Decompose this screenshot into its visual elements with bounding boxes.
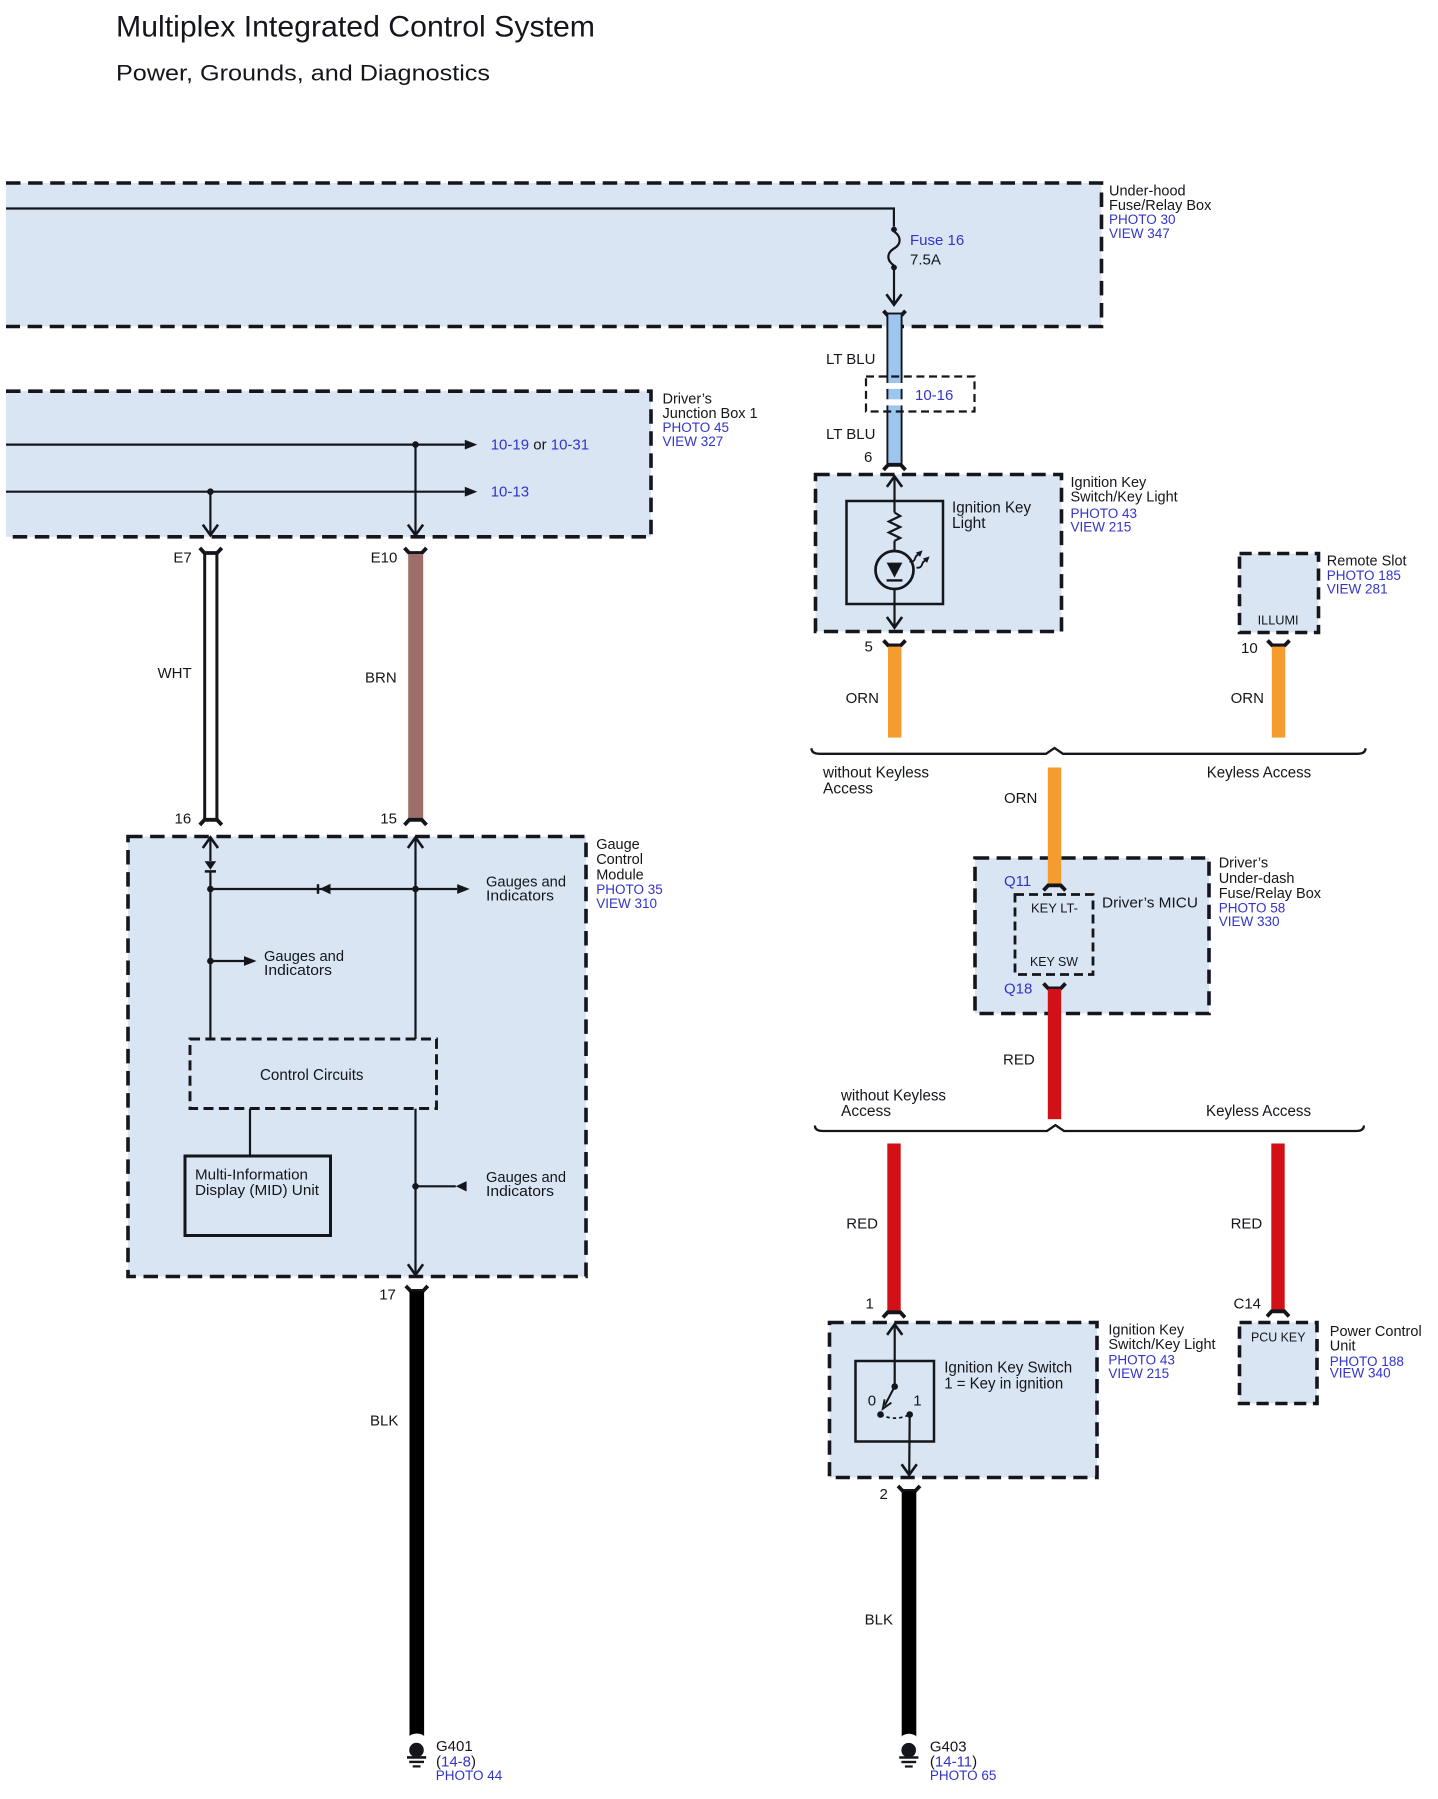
label: ILLUMI: [1258, 614, 1299, 628]
wire: BLK to G401: [409, 1291, 425, 1742]
label: ORN (middle): [1004, 790, 1037, 807]
label: KEY SW: [1030, 955, 1078, 969]
lamp L1 (LED key light): [876, 551, 914, 589]
label: Ignition Key Light: [952, 500, 1031, 533]
pin 2: [880, 1486, 888, 1503]
svg-text:LT BLU: LT BLU: [826, 351, 875, 368]
label: Driver's Junction Box 1 PHOTO 45 VIEW 327: [663, 391, 758, 449]
label: Power Control Unit PHOTO 188 VIEW 340: [1330, 1324, 1422, 1380]
light rays: [910, 550, 930, 567]
connector bracket (pin 10): [1268, 640, 1290, 645]
wire: left line node A to node B to control circuits: [209, 889, 211, 1039]
svg-text:VIEW 215: VIEW 215: [1071, 519, 1132, 534]
svg-text:PHOTO 65: PHOTO 65: [930, 1768, 997, 1783]
driver's under-dash fuse/relay box: [975, 858, 1209, 1014]
wire: junction bus to 10-13: [6, 487, 477, 497]
wire: BLK to G403: [901, 1491, 917, 1742]
label: Keyless Access (upper): [1207, 765, 1312, 782]
node A: [207, 886, 214, 893]
pin E10: [371, 550, 398, 567]
label: LT BLU (lower): [826, 426, 875, 443]
wire: pin1 into switch: [887, 1324, 902, 1386]
svg-text:E10: E10: [371, 550, 398, 567]
label: Under-hood Fuse/Relay Box PHOTO 30 VIEW 347: [1109, 183, 1212, 241]
label: without Keyless Access (lower): [840, 1088, 946, 1121]
label: Ignition Key Switch/Key Light PHOTO 43 VIEW 215 (lower): [1108, 1323, 1215, 1381]
svg-text:1: 1: [913, 1392, 921, 1409]
wire: control circuits to MID unit: [249, 1109, 251, 1156]
label: 10-16: [915, 387, 953, 404]
svg-text:Unit: Unit: [1330, 1339, 1356, 1355]
connector bracket (Q18): [1044, 983, 1066, 988]
svg-text:PCU KEY: PCU KEY: [1251, 1331, 1306, 1345]
svg-text:PHOTO 44: PHOTO 44: [436, 1768, 503, 1783]
wire: input from gauges and indicators (bottom): [416, 1181, 467, 1191]
svg-text:Control: Control: [596, 852, 643, 868]
svg-text:Display (MID) Unit: Display (MID) Unit: [195, 1182, 320, 1199]
label: BLK (right): [865, 1612, 893, 1629]
svg-text:C14: C14: [1234, 1296, 1262, 1313]
driver's junction box 1: [6, 391, 651, 537]
svg-text:Q11: Q11: [1004, 873, 1031, 890]
svg-text:5: 5: [865, 638, 873, 655]
wire: diode to node A: [209, 871, 211, 889]
wire: right line below control circuits: [408, 1109, 423, 1275]
label: Remote Slot PHOTO 185 VIEW 281: [1327, 554, 1407, 597]
pin C14: [1234, 1296, 1262, 1313]
wire: resistor to lamp: [893, 541, 895, 552]
svg-text:1: 1: [866, 1296, 874, 1313]
svg-text:Keyless Access: Keyless Access: [1206, 1103, 1311, 1120]
wire: WHT vertical: [205, 555, 217, 819]
svg-text:17: 17: [379, 1287, 396, 1304]
wire: horizontal to gauges and indicators (top): [210, 884, 469, 894]
label: WHT: [158, 665, 192, 682]
wire: pin16 line into module: [203, 837, 218, 861]
ignition key switch/key light box (key light): [816, 475, 1062, 632]
label: Gauges and Indicators (middle): [264, 948, 344, 979]
in-line connector 10-16: [866, 377, 975, 412]
svg-text:KEY SW: KEY SW: [1030, 955, 1078, 969]
label: Control Circuits: [260, 1067, 364, 1084]
svg-text:ORN: ORN: [1004, 790, 1037, 807]
label: Ignition Key Switch/Key Light PHOTO 43 VIEW 215 (upper): [1071, 475, 1178, 535]
branch brace (keyless split upper): [812, 748, 1366, 754]
label: ORN (left): [846, 690, 879, 707]
wire: pin15 line into module: [408, 837, 423, 1039]
remote slot box: [1240, 554, 1319, 633]
node: junction on bus 2: [207, 488, 214, 495]
label: 0: [868, 1392, 876, 1409]
wire: ORN common: [1048, 768, 1061, 885]
ground G401: [407, 1743, 426, 1767]
label: Gauges and Indicators (bottom): [486, 1169, 566, 1200]
label: G401 (14-8) PHOTO 44: [436, 1738, 503, 1783]
label: Gauge Control Module PHOTO 35 VIEW 310: [596, 837, 663, 911]
wire: LT BLU vertical: [884, 314, 905, 465]
label: Driver's MICU: [1102, 894, 1198, 911]
svg-text:RED: RED: [1003, 1051, 1035, 1068]
svg-text:BLK: BLK: [370, 1413, 398, 1430]
svg-text:10-19 or 10-31: 10-19 or 10-31: [491, 436, 589, 453]
svg-text:Multiplex Integrated Control S: Multiplex Integrated Control System: [116, 11, 595, 44]
label: RED (right): [1231, 1216, 1263, 1233]
svg-text:VIEW 215: VIEW 215: [1108, 1366, 1169, 1381]
branch brace (keyless split lower): [815, 1125, 1364, 1131]
svg-text:10-16: 10-16: [915, 387, 953, 404]
svg-text:VIEW 327: VIEW 327: [663, 434, 724, 449]
svg-text:VIEW 340: VIEW 340: [1330, 1366, 1391, 1381]
svg-text:10-13: 10-13: [491, 483, 529, 500]
label: BRN: [365, 669, 397, 686]
svg-text:VIEW 281: VIEW 281: [1327, 581, 1388, 596]
svg-text:ORN: ORN: [1231, 690, 1264, 707]
switch SW1 (ignition key): [877, 1383, 913, 1418]
svg-text:VIEW 330: VIEW 330: [1219, 914, 1280, 929]
svg-text:Keyless Access: Keyless Access: [1207, 765, 1312, 782]
svg-text:Access: Access: [823, 781, 873, 798]
svg-text:Light: Light: [952, 515, 986, 532]
wire: ORN from pin 5: [888, 647, 901, 738]
svg-text:10: 10: [1241, 640, 1258, 657]
node C: [412, 886, 419, 893]
connector bracket (pin 6): [884, 465, 906, 470]
wire: arrow to gauges and indicators (middle): [210, 956, 256, 966]
connector bracket (top of LT BLU wire): [884, 311, 906, 316]
svg-text:ILLUMI: ILLUMI: [1258, 614, 1299, 628]
ignition key switch/key light box (key switch): [830, 1323, 1098, 1478]
wire: contact 1 to pin 2: [902, 1415, 917, 1475]
wire: junction bus to 10-19 or 10-31: [6, 440, 477, 450]
label: KEY LT-: [1031, 902, 1078, 916]
svg-text:ORN: ORN: [846, 690, 879, 707]
label: RED (middle): [1003, 1051, 1035, 1068]
svg-text:RED: RED: [846, 1216, 878, 1233]
connector bracket (E10): [405, 548, 427, 553]
label: ORN (right): [1231, 690, 1264, 707]
connector bracket (pin 17): [406, 1286, 428, 1291]
svg-text:Ignition Key Switch: Ignition Key Switch: [944, 1360, 1072, 1377]
label: 10-13: [491, 483, 529, 500]
title: [116, 11, 595, 44]
wire: drop to E7: [203, 492, 218, 536]
wire: RED from Q18: [1048, 989, 1061, 1119]
wire: lamp to pin5: [887, 589, 902, 628]
power control unit box: [1240, 1323, 1318, 1404]
svg-text:Ignition Key: Ignition Key: [952, 500, 1031, 517]
pin 1: [866, 1296, 874, 1313]
label: RED (left): [846, 1216, 878, 1233]
label: 1 (contact): [913, 1392, 921, 1409]
wire: ORN from pin 10: [1272, 647, 1285, 738]
svg-text:without Keyless: without Keyless: [840, 1088, 946, 1105]
wire: RED to power control unit: [1271, 1144, 1284, 1310]
pin Q18: [1004, 980, 1032, 997]
svg-text:VIEW 310: VIEW 310: [596, 896, 657, 911]
pin 10: [1241, 640, 1258, 657]
svg-text:VIEW 347: VIEW 347: [1109, 226, 1170, 241]
svg-text:BRN: BRN: [365, 669, 397, 686]
switch cell box: [856, 1361, 935, 1442]
svg-text:KEY LT-: KEY LT-: [1031, 902, 1078, 916]
diode D1: [205, 861, 217, 871]
svg-text:7.5A: 7.5A: [910, 252, 941, 269]
svg-text:Indicators: Indicators: [486, 1183, 554, 1200]
svg-text:Driver’s: Driver’s: [1219, 855, 1268, 871]
svg-text:Switch/Key Light: Switch/Key Light: [1108, 1337, 1215, 1353]
pin E7: [173, 549, 191, 566]
multi-information display (MID) unit box: [185, 1156, 331, 1236]
resistor R (key light): [889, 513, 900, 541]
svg-text:1 = Key in ignition: 1 = Key in ignition: [944, 1376, 1063, 1393]
label: Ignition Key Switch / 1 = Key in ignition: [944, 1360, 1072, 1393]
connector bracket (pin 2): [898, 1486, 920, 1491]
label: Keyless Access (lower): [1206, 1103, 1311, 1120]
pin 15: [380, 811, 397, 828]
label: Fuse 16 7.5A: [910, 232, 964, 269]
svg-text:PHOTO 45: PHOTO 45: [663, 420, 730, 435]
driver's MICU block: [1015, 895, 1093, 975]
under-hood fuse/relay box: [6, 183, 1102, 327]
subtitle: [116, 61, 490, 86]
control circuits block: [190, 1039, 437, 1109]
svg-text:Access: Access: [841, 1103, 891, 1120]
svg-text:WHT: WHT: [158, 665, 192, 682]
svg-text:6: 6: [864, 449, 872, 466]
svg-text:2: 2: [880, 1486, 888, 1503]
svg-text:BLK: BLK: [865, 1612, 893, 1629]
node B: [207, 958, 214, 965]
label: Gauges and Indicators (top right): [486, 874, 566, 905]
connector bracket (pin 1): [883, 1312, 905, 1317]
svg-text:E7: E7: [173, 549, 191, 566]
wire: pin6 into key light: [887, 476, 902, 512]
connector bracket (C14): [1267, 1311, 1289, 1316]
wire: battery bus to fuse 16: [6, 209, 894, 227]
svg-text:Gauge: Gauge: [596, 837, 640, 853]
svg-text:Indicators: Indicators: [264, 962, 332, 979]
node D: [412, 1183, 419, 1190]
label: G403 (14-11) PHOTO 65: [930, 1738, 997, 1783]
svg-text:Q18: Q18: [1004, 980, 1032, 997]
connector bracket (Q11): [1044, 885, 1066, 890]
svg-text:0: 0: [868, 1392, 876, 1409]
connector bracket (pin 5): [884, 640, 906, 645]
svg-text:RED: RED: [1231, 1216, 1263, 1233]
wire: drop to E10: [408, 445, 423, 536]
label: PCU KEY: [1251, 1331, 1306, 1345]
svg-text:15: 15: [380, 811, 397, 828]
pin 17: [379, 1287, 396, 1304]
svg-text:LT BLU: LT BLU: [826, 426, 875, 443]
connector bracket (pin 16): [200, 820, 222, 825]
pin 5: [865, 638, 873, 655]
connector bracket (E7): [200, 548, 222, 553]
svg-text:PHOTO 35: PHOTO 35: [596, 882, 663, 897]
svg-text:PHOTO 30: PHOTO 30: [1109, 212, 1176, 227]
label: Driver's Under-dash Fuse/Relay Box PHOTO 58 VIEW 330: [1219, 855, 1322, 929]
label: LT BLU (upper): [826, 351, 875, 368]
svg-text:Under-dash: Under-dash: [1219, 871, 1295, 887]
pin Q11: [1004, 873, 1031, 890]
svg-text:without Keyless: without Keyless: [822, 765, 929, 782]
svg-text:Fuse 16: Fuse 16: [910, 232, 964, 249]
ground G403: [899, 1743, 918, 1767]
label: BLK (left): [370, 1413, 398, 1430]
pin 6: [864, 449, 872, 466]
connector bracket (pin 15): [405, 820, 427, 825]
wire: RED to ignition key switch: [887, 1144, 900, 1312]
wire: BRN vertical: [408, 554, 423, 819]
svg-text:Multi-Information: Multi-Information: [195, 1166, 308, 1183]
svg-text:Control Circuits: Control Circuits: [260, 1067, 364, 1084]
svg-text:Power, Grounds, and Diagnostic: Power, Grounds, and Diagnostics: [116, 61, 490, 86]
label: Multi-Information Display (MID) Unit: [195, 1166, 320, 1199]
node: junction on bus 1: [412, 441, 419, 448]
label: 10-19 or 10-31: [491, 436, 589, 453]
pin 16: [175, 811, 192, 828]
gauge control module box: [128, 837, 586, 1277]
key light cell box: [847, 501, 944, 604]
svg-text:Switch/Key Light: Switch/Key Light: [1071, 489, 1178, 505]
svg-text:16: 16: [175, 811, 192, 828]
label: without Keyless Access (upper): [822, 765, 929, 798]
fuse F16 7.5A: [886, 227, 901, 305]
svg-text:Indicators: Indicators: [486, 888, 554, 905]
svg-text:Driver’s MICU: Driver’s MICU: [1102, 894, 1198, 911]
